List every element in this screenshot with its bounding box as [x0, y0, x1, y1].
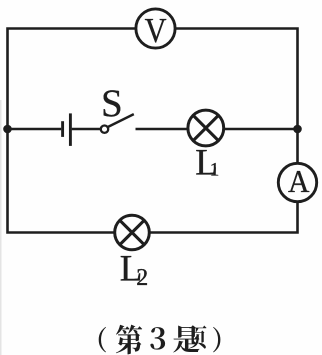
digit 3 [150, 327, 165, 350]
ammeter A circle [278, 163, 316, 201]
fullwidth open paren [99, 327, 106, 353]
wire: switch fixed contact via lamp L1 to right node [136, 128, 298, 131]
battery positive plate (long) [69, 113, 72, 145]
lamp L1 cross [193, 115, 218, 140]
lamp L1 circle [188, 110, 224, 146]
wire: middle branch from left node to battery [8, 128, 62, 131]
lamp L2 cross [120, 220, 144, 244]
switch S pivot circle [101, 126, 108, 133]
battery negative plate (short) [61, 121, 64, 137]
junction node right [293, 125, 302, 134]
hanzi TI (题) right part YE (页) [189, 325, 207, 348]
svg-text:A: A [288, 163, 310, 199]
junction node left [3, 125, 12, 134]
svg-text:1: 1 [210, 160, 220, 181]
hanzi DI (第) [116, 325, 142, 355]
wire: battery to switch [72, 128, 101, 131]
svg-text:V: V [145, 12, 167, 50]
scan shading artifact on left edge [0, 100, 2, 355]
hanzi TI (题) left part SHI (是) [173, 325, 199, 352]
voltmeter V circle [136, 9, 175, 48]
svg-text:S: S [101, 82, 123, 125]
outer circuit loop wire [8, 29, 298, 233]
caption (第3题) drawn as glyph paths [99, 325, 221, 355]
lamp L2 circle [115, 215, 150, 250]
svg-text:2: 2 [136, 265, 148, 291]
switch S blade [108, 114, 134, 127]
fullwidth close paren [213, 327, 220, 353]
